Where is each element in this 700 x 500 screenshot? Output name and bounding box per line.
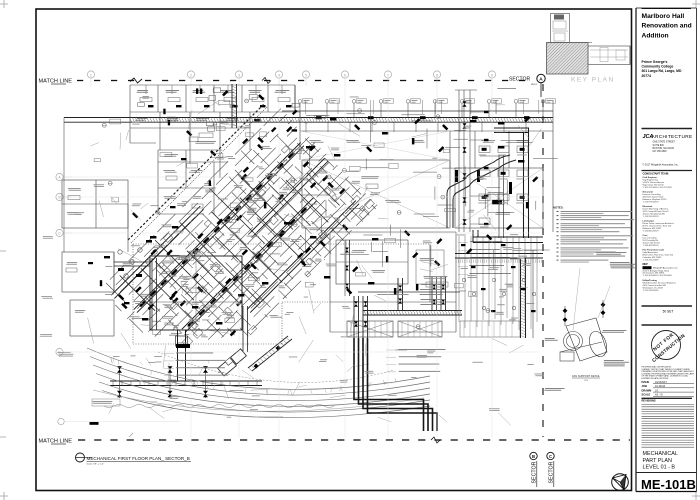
- diagonal duct mains double: [111, 143, 359, 333]
- east room cross bracing: [302, 160, 450, 228]
- branch drops below duct: [305, 122, 307, 132]
- se piping marks: [461, 244, 466, 246]
- grid bubble E bottom left: [58, 418, 64, 424]
- sector B C markers bottom: [530, 452, 537, 459]
- svg-text:MATCH LINE: MATCH LINE: [39, 439, 73, 445]
- upper vertical ducts in hall: [151, 258, 153, 330]
- consultants rule: [642, 170, 693, 172]
- svg-text:8: 8: [436, 73, 438, 77]
- scatter leader lines: [421, 262, 440, 266]
- se room labels: [460, 290, 466, 293]
- corridor drops extra: [370, 100, 372, 114]
- svg-text:© 2017 Wingardh Associates, In: © 2017 Wingardh Associates, Inc.: [643, 164, 679, 167]
- svg-text:CONSULTANT TEAM:: CONSULTANT TEAM:: [643, 172, 670, 176]
- svg-text:2: 2: [190, 73, 192, 77]
- svg-text:T. 410.296.4331 F.: T. 410.296.4331 F.: [643, 216, 660, 218]
- diagonal boundary wall dashed: [128, 104, 264, 240]
- second riser group: [344, 240, 346, 296]
- svg-text:MECHANICAL FIRST FLOOR PLAN: MECHANICAL FIRST FLOOR PLAN_ SECTOR_B: [87, 456, 190, 461]
- svg-text:A: A: [539, 77, 543, 83]
- column grid bubbles top: [87, 71, 94, 78]
- svg-text:SECTOR: SECTOR: [531, 461, 537, 483]
- scatter hex diffusers: [342, 168, 346, 172]
- set rule upper: [642, 305, 693, 307]
- svg-text:REVISIONS: REVISIONS: [642, 399, 656, 403]
- diagonal wing dampers scatter: [148, 304, 154, 310]
- svg-text:3: 3: [238, 73, 240, 77]
- west building edge wall: [63, 118, 65, 253]
- svg-text:SECTOR: SECTOR: [509, 76, 530, 82]
- sector B C vertical boundary dashed: [542, 84, 544, 91]
- recital hall inner walls: [150, 256, 242, 330]
- svg-text:NOTES:: NOTES:: [553, 206, 564, 210]
- west connector ducts: [114, 261, 150, 263]
- east riser side taps: [470, 111, 484, 113]
- svg-text:Scale: 1/8" = 1'-0": Scale: 1/8" = 1'-0": [87, 464, 105, 466]
- svg-text:Addition: Addition: [642, 32, 669, 39]
- inner rooms labels: [165, 153, 179, 156]
- svg-text:Community College: Community College: [642, 65, 674, 69]
- svg-text:Fire Protection Code: Fire Protection Code: [643, 249, 665, 252]
- svg-text:301 Largo Rd, Largo, MD: 301 Largo Rd, Largo, MD: [642, 69, 682, 73]
- east rooms inner labels: [362, 175, 379, 178]
- bottom match line dashed: [78, 439, 85, 441]
- svg-text:T. 410.685.2090 F.: T. 410.685.2090 F.: [643, 231, 660, 233]
- key plan right wing details: [590, 49, 628, 51]
- diagonal wing labels: [171, 332, 181, 335]
- svg-text:ISSUE: ISSUE: [642, 380, 650, 384]
- svg-text:20774: 20774: [642, 74, 652, 78]
- se mech grille labels right: [470, 240, 503, 243]
- bottom left grid bubble: [75, 452, 77, 454]
- inner rooms left of diagonal boundary: [158, 150, 228, 214]
- svg-text:617.350.0800: 617.350.0800: [653, 151, 668, 153]
- grid guide verticals: [90, 78, 92, 86]
- break squiggle top left: [130, 78, 142, 83]
- practice room labels: [137, 89, 148, 92]
- layover room label: [197, 140, 216, 143]
- key plan tower details: [554, 15, 564, 20]
- second row rooms below practice: [130, 112, 250, 178]
- dark bar bottom left: [90, 422, 99, 425]
- auto damper dark line: [358, 291, 460, 293]
- svg-text:5: 5: [305, 73, 307, 77]
- north arrow symbol: [612, 474, 629, 491]
- connector notes rows right: [398, 348, 445, 351]
- svg-text:Wingardh Associates, Inc.: Wingardh Associates, Inc.: [653, 267, 679, 270]
- lower duct outlet labels: [93, 400, 113, 403]
- svg-text:JOB: JOB: [642, 384, 647, 388]
- svg-text:SCALE: SCALE: [642, 393, 651, 397]
- seating arcs: [87, 348, 430, 418]
- architect rule: [642, 128, 693, 130]
- set rule lower: [642, 324, 693, 326]
- dampers on duct band: [316, 116, 322, 119]
- svg-text:Landscape: Landscape: [643, 221, 655, 223]
- mech riser pair mid: [397, 278, 399, 311]
- vertical duct at grid 4: [231, 84, 233, 128]
- lower duct bowtie pairs: [119, 366, 121, 398]
- east main L duct dark: [494, 127, 529, 129]
- svg-text:Utility/Testing: Utility/Testing: [643, 279, 658, 282]
- fan detail leaders and labels: [596, 251, 627, 254]
- svg-text:50 SET: 50 SET: [663, 310, 674, 314]
- svg-text:Marlboro Hall: Marlboro Hall: [642, 13, 685, 20]
- svg-text:T. 301.791.3900 F. 301.791.3: T. 301.791.3900 F. 301.791.3935: [643, 187, 673, 189]
- svg-text:ONE STATE STREET: ONE STATE STREET: [653, 141, 676, 144]
- break squiggle bottom: [431, 437, 440, 443]
- svg-text:1: 1: [90, 73, 92, 77]
- left edge fold ticks: [0, 250, 6, 252]
- svg-text:T. 410.979.9000 F.: T. 410.979.9000 F.: [643, 202, 660, 204]
- svg-text:EXPIRATION DATE 09/21/2018.: EXPIRATION DATE 09/21/2018.: [642, 377, 670, 380]
- scatter tiny labels global: [173, 230, 183, 233]
- recital hall dotted perimeter: [133, 244, 430, 344]
- long supply duct band: [64, 117, 553, 119]
- mech riser quad right: [431, 276, 433, 311]
- svg-text:C: C: [549, 454, 552, 459]
- connector notes rows left: [176, 352, 213, 355]
- east rooms block outlines: [300, 100, 553, 232]
- upper rooms extra marks: [206, 122, 214, 126]
- right mechanical column equipment: [479, 146, 490, 153]
- se piping verticals: [459, 236, 537, 330]
- diagonal wing network: [106, 109, 377, 340]
- stage front black bar: [176, 344, 190, 348]
- title block outer frame: [635, 8, 637, 492]
- scalloped ceiling line: [104, 405, 334, 408]
- mech ticked duct band: [363, 310, 462, 312]
- svg-text:LEVEL 01 - B: LEVEL 01 - B: [643, 465, 676, 471]
- mech duct east run lower: [455, 253, 543, 255]
- corner trim marks: [0, 3, 8, 5]
- east snake duct: [447, 155, 510, 228]
- fan detail hanger diamonds: [563, 308, 568, 313]
- svg-text:PART PLAN: PART PLAN: [643, 458, 672, 464]
- faint grid guide lines vertical: [190, 86, 192, 438]
- diagonal main damper chains: [139, 301, 146, 308]
- top practice rooms row: [130, 85, 300, 143]
- svg-text:Renovation and: Renovation and: [642, 23, 692, 30]
- column grid bubbles left: [56, 173, 63, 180]
- east half partition scatter: [306, 114, 558, 270]
- diagonal wing tiny squares: [351, 195, 361, 205]
- mech label stack: [421, 283, 445, 286]
- fan support detail figure: [560, 300, 610, 361]
- svg-text:ME101: ME101: [531, 84, 538, 86]
- key plan outline: [548, 14, 630, 75]
- revisions header rule: [642, 397, 693, 399]
- svg-text:T. 443.463.3955 F.: T. 443.463.3955 F.: [643, 245, 660, 247]
- title block top rule: [642, 8, 692, 10]
- scatter small boxes global: [110, 119, 121, 124]
- svg-text:Structural: Structural: [643, 191, 654, 194]
- svg-text:MEP: MEP: [643, 263, 649, 266]
- southeast mech room walls: [330, 232, 456, 332]
- svg-text:Prince George's: Prince George's: [642, 60, 668, 64]
- svg-text:SECTOR: SECTOR: [548, 461, 554, 483]
- svg-text:BOSTON, MA 02109: BOSTON, MA 02109: [653, 147, 675, 150]
- svg-text:T. 202.244.2006 F.: T. 202.244.2006 F.: [643, 290, 660, 292]
- svg-text:ARCHITECTURE: ARCHITECTURE: [652, 134, 693, 139]
- se panel extension right: [460, 321, 520, 337]
- west wing labels: [68, 187, 81, 190]
- east tall black dampers: [455, 170, 458, 182]
- wall act deck label: [497, 87, 516, 90]
- faint grid guide lines horizontal: [64, 176, 540, 178]
- svg-text:DRAWN: DRAWN: [642, 388, 652, 392]
- svg-text:9: 9: [491, 73, 493, 77]
- svg-text:Electrical: Electrical: [643, 205, 653, 208]
- svg-text:4: 4: [278, 73, 280, 77]
- pipe bundle L run: [354, 338, 437, 431]
- sheet number rule: [636, 472, 697, 474]
- east secondary vertical: [498, 155, 500, 238]
- svg-text:Civil Engineer: Civil Engineer: [643, 177, 658, 179]
- mech vertical duct east: [520, 258, 522, 338]
- svg-text:7: 7: [387, 73, 389, 77]
- scatter black dampers orthogonal zones: [222, 90, 228, 96]
- west wing rooms: [62, 180, 128, 336]
- svg-text:MATCH LINE: MATCH LINE: [39, 79, 73, 85]
- top corridor wall: [282, 110, 553, 112]
- pipe bundle bowties: [354, 301, 358, 306]
- top match line dashed: [77, 80, 83, 82]
- crossed lintel panels: [347, 321, 393, 337]
- svg-text:MECHANICAL: MECHANICAL: [643, 451, 678, 457]
- mech room label mechanical: [424, 275, 448, 278]
- slanted lift assembly: [218, 358, 237, 376]
- big vertical duct to stage: [177, 330, 179, 381]
- revision lines: [642, 403, 695, 405]
- svg-text:KEY PLAN: KEY PLAN: [571, 77, 615, 84]
- stage arc dashed: [158, 352, 394, 382]
- se mech inner detail: [336, 240, 408, 284]
- pipe bundle risers above: [353, 296, 355, 338]
- west wing black marks: [104, 256, 110, 258]
- svg-text:T. 410.750.2246 F.: T. 410.750.2246 F.: [643, 260, 660, 262]
- east wing vertical duct risers: [455, 90, 477, 232]
- svg-text:T. 301.353.0600 F. 301.353.0: T. 301.353.0600 F. 301.353.0604: [643, 275, 673, 277]
- mech duct east run upper: [473, 236, 543, 238]
- svg-text:ME-101B: ME-101B: [641, 477, 696, 492]
- duct band hatch ticks: [130, 118, 553, 123]
- vav stems and labels row: [299, 103, 301, 118]
- svg-text:6: 6: [344, 73, 346, 77]
- plan title mark: [76, 453, 85, 462]
- svg-text:SUITE 800: SUITE 800: [653, 145, 665, 147]
- lower duct run horizontal: [110, 380, 262, 382]
- arc seat ticks: [291, 390, 292, 395]
- svg-text:Cost: Cost: [643, 234, 648, 237]
- arc region specks: [113, 355, 120, 358]
- west wing small equipment: [118, 250, 122, 254]
- east riser bowties: [462, 101, 466, 107]
- break squiggle top: [262, 78, 271, 84]
- hatched diagonal duct bottom: [248, 336, 288, 368]
- not for construction stamp: [652, 331, 681, 360]
- svg-text:B: B: [532, 454, 535, 459]
- key plan hatched sector: [547, 43, 589, 75]
- svg-text:FAN SUPPORT DETAIL: FAN SUPPORT DETAIL: [572, 374, 600, 378]
- recital hall inner labels: [180, 275, 195, 278]
- diagonal perpendicular branch ducts: [120, 173, 340, 325]
